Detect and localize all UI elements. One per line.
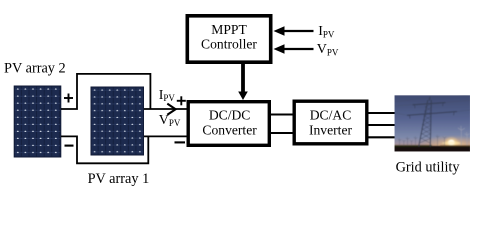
wire AC phase 3 xyxy=(369,136,396,138)
PV array 2 panel xyxy=(14,86,61,157)
DC/DC converter box xyxy=(188,102,269,146)
arrowhead on I_PV line xyxy=(167,104,175,115)
svg-text:Converter: Converter xyxy=(202,123,257,138)
mast top xyxy=(428,97,431,101)
insulators xyxy=(414,105,417,108)
ground xyxy=(394,146,471,152)
wire negative: PV array 2 (-) routed under PV array 1 xyxy=(61,136,148,163)
wire AC phase 1 xyxy=(369,112,396,114)
svg-text:PV array 1: PV array 1 xyxy=(88,171,150,187)
wind turbines left group xyxy=(398,135,446,146)
DC/AC inverter box xyxy=(294,101,367,144)
I_PV input arrow to MPPT controller xyxy=(274,26,314,35)
svg-text:MPPT: MPPT xyxy=(211,22,247,37)
node + (DC/DC positive input) xyxy=(177,96,186,105)
wire I_PV line into DC/DC converter xyxy=(144,108,189,110)
svg-text:PV array 2: PV array 2 xyxy=(4,61,66,77)
node + (PV array 2 positive terminal) xyxy=(64,94,73,103)
arrow MPPT controller to DC/DC converter xyxy=(238,64,248,100)
wire DC link lower xyxy=(271,132,294,134)
node - (PV array 2 negative terminal) xyxy=(65,145,74,147)
svg-text:Inverter: Inverter xyxy=(309,123,352,138)
node - (DC/DC negative input) xyxy=(175,141,186,143)
cross arms xyxy=(413,103,446,105)
svg-text:VPV: VPV xyxy=(317,42,339,57)
wind turbines right group xyxy=(458,126,470,145)
grid utility photo xyxy=(394,94,471,152)
svg-text:DC/AC: DC/AC xyxy=(310,108,352,123)
svg-text:IPV: IPV xyxy=(318,24,335,39)
power lines xyxy=(394,94,471,115)
pylon silhouette xyxy=(407,97,457,147)
svg-text:DC/DC: DC/DC xyxy=(209,108,251,123)
wire DC link upper xyxy=(271,113,294,115)
PV array 1 panel xyxy=(91,87,144,155)
V_PV input arrow to MPPT controller xyxy=(274,44,314,53)
sun core xyxy=(448,140,454,145)
MPPT controller box U1 xyxy=(187,16,270,62)
svg-text:VPV: VPV xyxy=(159,113,181,128)
wire AC phase 2 xyxy=(369,124,396,126)
wire positive: PV array 2 (+) routed over PV array 1 xyxy=(61,74,150,109)
svg-text:Grid utility: Grid utility xyxy=(396,159,461,175)
svg-text:IPV: IPV xyxy=(159,88,176,103)
svg-text:Controller: Controller xyxy=(201,36,257,51)
wire V_PV line into DC/DC converter xyxy=(144,135,189,137)
